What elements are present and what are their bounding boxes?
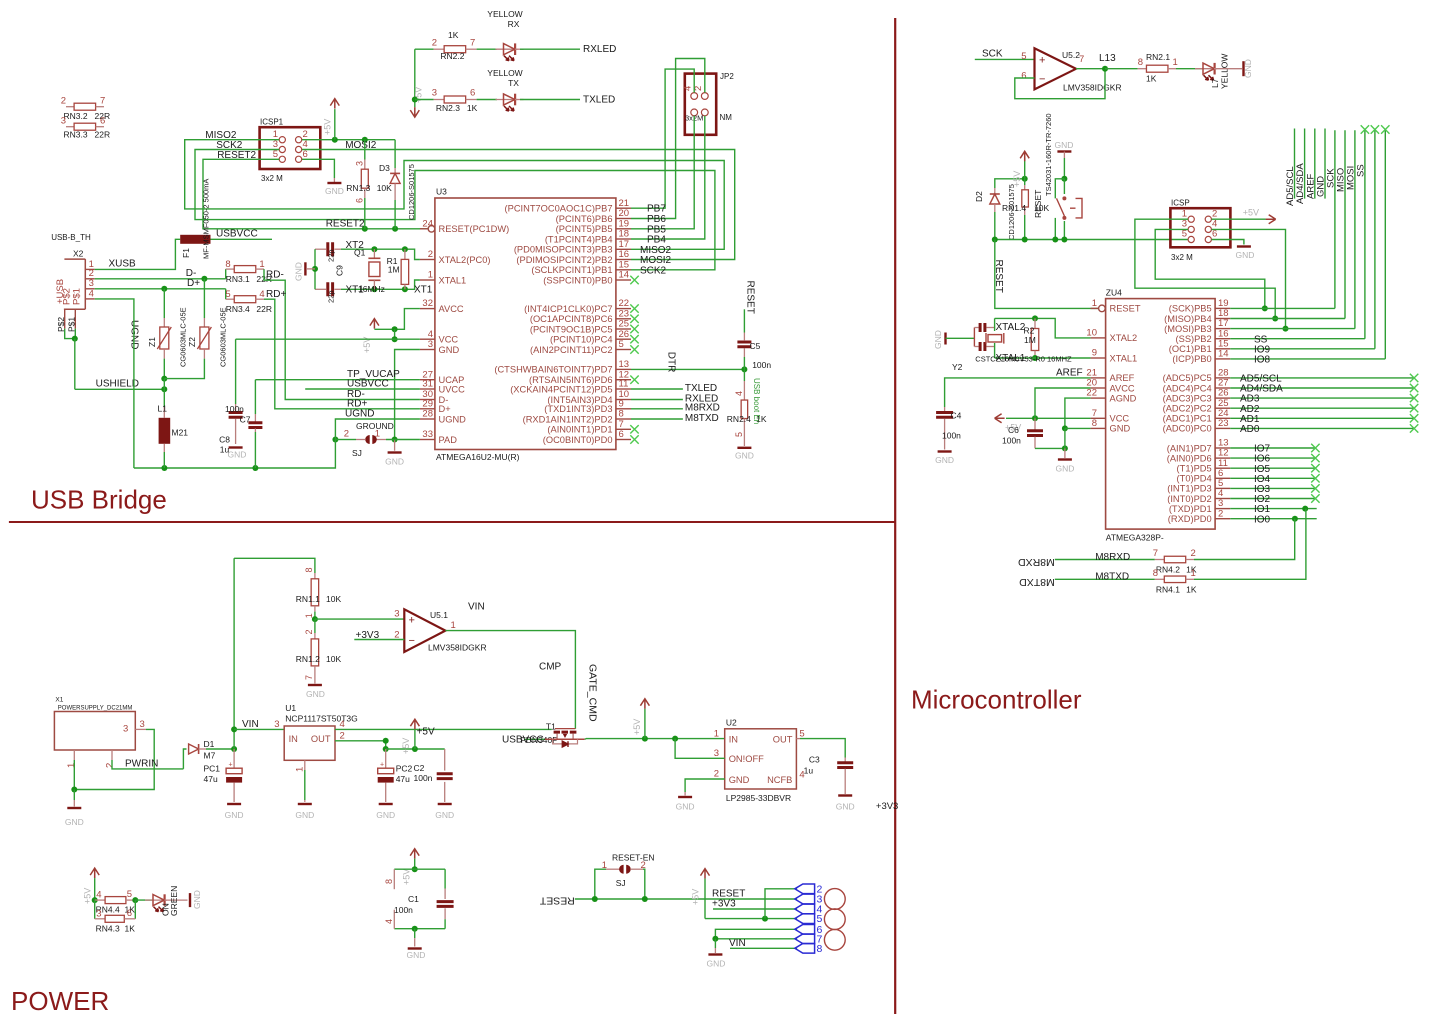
svg-text:2: 2 — [428, 249, 433, 260]
svg-text:POWERSUPPLY_DC21MM: POWERSUPPLY_DC21MM — [58, 706, 133, 712]
wire PB1 row IO9 — [1230, 348, 1375, 350]
IC ZU4 ATMEGA328P body — [1106, 299, 1216, 529]
wire MOSI2 from ICSP1 pin4 to U3 PB2 — [302, 149, 340, 151]
svg-text:U5.1: U5.1 — [430, 610, 448, 620]
wire TXLED — [520, 99, 580, 101]
junction DTR/C5 — [741, 366, 747, 372]
svg-text:ICSP1: ICSP1 — [260, 118, 284, 127]
junction D-/Z2 — [201, 276, 207, 282]
svg-text:(TXD1INT3)PD3: (TXD1INT3)PD3 — [544, 404, 612, 414]
svg-text:XTAL2: XTAL2 — [1110, 333, 1138, 343]
junction RN4.4 right — [132, 897, 138, 903]
svg-text:22p: 22p — [327, 249, 336, 262]
svg-text:(MOSI)PB3: (MOSI)PB3 — [1164, 324, 1212, 334]
svg-text:GND: GND — [385, 457, 404, 467]
svg-text:ON!OFF: ON!OFF — [729, 754, 764, 764]
wire RESET down to ZU4 — [995, 240, 1099, 309]
svg-text:GND: GND — [325, 186, 344, 196]
svg-text:F1: F1 — [181, 248, 191, 258]
svg-text:USB-B_TH: USB-B_TH — [51, 233, 91, 242]
wire IO5 row — [1230, 467, 1315, 469]
wire ON!OFF — [675, 739, 725, 759]
ground GND (resonator) — [944, 333, 946, 345]
wire XT2 gnd branch — [314, 249, 316, 289]
ZU4 pin 28 (ADC5)PC5 — [1215, 377, 1230, 379]
svg-text:GND: GND — [735, 451, 754, 461]
svg-text:AGND: AGND — [1110, 393, 1137, 403]
svg-text:C6: C6 — [1008, 425, 1019, 435]
svg-text:D1: D1 — [204, 739, 215, 749]
svg-text:GND: GND — [225, 810, 244, 820]
ground GND (C4) — [938, 450, 952, 452]
svg-text:C9: C9 — [335, 265, 345, 276]
U3 pin 31 UVCC — [420, 388, 435, 390]
svg-text:2: 2 — [105, 763, 116, 768]
junction +5V stem — [412, 746, 418, 752]
resistor RN4.1 1K — [1155, 578, 1165, 580]
svg-text:SJ: SJ — [616, 878, 626, 888]
svg-text:VIN: VIN — [729, 938, 746, 949]
wire UGND down to ground rail — [255, 419, 420, 468]
svg-text:D3: D3 — [379, 163, 390, 173]
no-connect X — [630, 425, 638, 433]
svg-text:TXLED: TXLED — [685, 383, 717, 394]
svg-text:USB Bridge: USB Bridge — [31, 485, 167, 515]
resistor RN2.4 1K — [743, 369, 745, 381]
svg-text:(PCINT10)PC4: (PCINT10)PC4 — [550, 335, 613, 345]
svg-text:(ICP)PB0: (ICP)PB0 — [1172, 354, 1211, 364]
svg-text:RESET-EN: RESET-EN — [612, 853, 655, 863]
svg-text:(XCKAIN4PCINT12)PD5: (XCKAIN4PCINT12)PD5 — [510, 384, 612, 394]
junction +5V (USB power mux) — [642, 736, 648, 742]
svg-text:+5V: +5V — [632, 719, 642, 735]
ZU4 pin 19 (SCK)PB5 — [1215, 307, 1230, 309]
ZU4 pin 25 (ADC2)PC2 — [1215, 407, 1230, 409]
wire RD- to U3 D- — [264, 269, 420, 399]
ZU4 pin 8 GND — [1091, 427, 1106, 429]
svg-text:RN3.2: RN3.2 — [64, 111, 88, 121]
ground GND (C8) — [229, 446, 243, 448]
wire AREF to C4 — [945, 378, 1091, 407]
junction +5V symbol — [332, 137, 338, 143]
svg-text:10K: 10K — [326, 594, 341, 604]
no-connect X — [630, 435, 638, 443]
svg-text:+5V: +5V — [402, 869, 412, 885]
svg-text:1M: 1M — [1024, 335, 1036, 345]
wire GND to header pin7 — [715, 938, 797, 940]
capacitor 22p (XTAL1 side) — [315, 288, 326, 290]
ground GND (U2) — [684, 792, 686, 796]
svg-text:USBVCC: USBVCC — [216, 228, 258, 239]
svg-text:14: 14 — [619, 270, 630, 281]
svg-text:−: − — [1039, 74, 1045, 86]
svg-text:100n: 100n — [225, 404, 244, 414]
svg-text:L13: L13 — [1099, 53, 1116, 64]
junction header +5V — [762, 916, 768, 922]
svg-text:4: 4 — [259, 289, 264, 300]
svg-text:2: 2 — [641, 860, 646, 871]
svg-text:1: 1 — [259, 259, 264, 270]
svg-text:RN2.2: RN2.2 — [440, 51, 464, 61]
junction IO0/M8RXD — [1292, 516, 1298, 522]
ZU4 pin 14 (ICP)PB0 — [1215, 358, 1230, 360]
resistor R2 1M — [1032, 315, 1038, 321]
svg-text:+: + — [409, 615, 415, 627]
svg-text:+5V: +5V — [417, 727, 435, 738]
diode D3 CD1206-S01575 — [394, 140, 396, 168]
wire +5V row from ICSP1 pin2 — [302, 139, 395, 141]
svg-text:+5V: +5V — [1012, 171, 1022, 187]
svg-text:IO0: IO0 — [1254, 514, 1271, 525]
svg-text:C1: C1 — [408, 894, 419, 904]
svg-text:14: 14 — [1218, 349, 1229, 360]
net stub GND — [1324, 129, 1326, 199]
junction C1 top — [412, 866, 418, 872]
capacitor PC2 47u polarized — [385, 749, 387, 768]
section divider horizontal — [9, 521, 895, 523]
svg-text:RN2.3: RN2.3 — [436, 103, 460, 113]
svg-text:(ADC4)PC4: (ADC4)PC4 — [1163, 383, 1212, 393]
junction RESET/button a — [1052, 237, 1058, 243]
ZU4 pin 15 (OC1)PB1 — [1215, 348, 1230, 350]
svg-text:UGND: UGND — [439, 414, 467, 424]
svg-text:M8TXD: M8TXD — [1019, 576, 1055, 588]
resistor RN1.3 10K — [364, 140, 366, 160]
wire AVCC down — [1035, 388, 1091, 418]
svg-text:5: 5 — [734, 432, 744, 437]
svg-text:2: 2 — [304, 629, 314, 634]
svg-text:+5V: +5V — [401, 738, 411, 754]
svg-text:(TXD)PD1: (TXD)PD1 — [1169, 504, 1212, 514]
junction ON!OFF tie — [672, 736, 678, 742]
svg-text:LMV358IDGKR: LMV358IDGKR — [428, 643, 487, 653]
svg-text:3: 3 — [140, 719, 145, 730]
svg-text:RN1.2: RN1.2 — [296, 654, 320, 664]
wire GND pin3 down — [395, 350, 420, 440]
svg-text:8: 8 — [817, 943, 823, 955]
wire SS bus — [1364, 130, 1366, 339]
svg-text:M8TXD: M8TXD — [1095, 572, 1129, 583]
svg-text:OUT: OUT — [311, 734, 331, 744]
varistor Z2 CG0603MLC-05E — [203, 279, 205, 318]
wire ICSP MISO to PB4 — [1135, 219, 1275, 318]
wire RD+ to U3 D+ — [264, 299, 420, 409]
ground GND (U1) — [304, 760, 306, 770]
ZU4 pin 1 RESET — [1091, 307, 1099, 309]
ZU4 pin 12 (AIN0)PD6 — [1215, 457, 1230, 459]
svg-text:1: 1 — [602, 860, 607, 871]
svg-text:1: 1 — [295, 767, 306, 772]
svg-text:UVCC: UVCC — [439, 384, 466, 394]
inductor L1 M21 ferrite — [163, 407, 165, 418]
svg-text:Microcontroller: Microcontroller — [911, 685, 1082, 715]
svg-text:2: 2 — [61, 96, 66, 107]
wire VIN to header pin8 — [730, 947, 797, 949]
svg-text:RN1.3: RN1.3 — [346, 183, 370, 193]
svg-text:6: 6 — [355, 198, 365, 203]
svg-text:+3V3: +3V3 — [876, 801, 898, 812]
wire AD3 row — [1230, 397, 1414, 399]
U3 pin 18 (T1PCINT4)PB4 — [616, 238, 631, 240]
wire +3V3 to op-amp - — [354, 639, 404, 641]
svg-text:9: 9 — [1092, 348, 1097, 359]
svg-text:IN: IN — [289, 734, 298, 744]
junction Z1 bottom — [161, 376, 167, 382]
svg-text:8: 8 — [384, 879, 394, 884]
no-connect X — [630, 304, 638, 312]
wire AD4/SDA row — [1230, 387, 1414, 389]
svg-text:RX: RX — [508, 19, 520, 29]
svg-text:3: 3 — [714, 748, 719, 759]
wire USHIELD rail — [75, 388, 165, 390]
svg-text:USHIELD: USHIELD — [96, 379, 139, 390]
svg-text:(PCINT6)PB6: (PCINT6)PB6 — [556, 214, 613, 224]
wire VCC rail — [236, 338, 420, 340]
svg-text:PC2: PC2 — [396, 764, 413, 774]
connector ICSP1 3x2 header — [260, 127, 321, 169]
svg-text:GND: GND — [676, 802, 695, 812]
ground GND (PC1) — [227, 803, 241, 805]
svg-text:1: 1 — [304, 613, 314, 618]
svg-text:U5.2: U5.2 — [1062, 50, 1080, 60]
wire RXLED stub — [631, 399, 683, 401]
svg-text:4: 4 — [89, 288, 94, 299]
svg-text:YELLOW: YELLOW — [487, 9, 522, 19]
junction XT2 gnd — [312, 266, 318, 272]
svg-text:AVCC: AVCC — [1110, 383, 1135, 393]
svg-text:8: 8 — [1092, 418, 1097, 429]
X2 shield pins P$2 P$1 — [64, 309, 66, 328]
svg-text:3: 3 — [355, 161, 365, 166]
no-connect X — [630, 345, 638, 353]
junction divider mid — [312, 616, 318, 622]
ZU4 pin 17 (MOSI)PB3 — [1215, 328, 1230, 330]
svg-text:3x2 M: 3x2 M — [1171, 253, 1193, 262]
connector JP2 2x2 header — [685, 74, 716, 135]
capacitor C4 100n — [944, 407, 946, 411]
wire MOSI bus — [1354, 130, 1356, 328]
svg-text:GND: GND — [65, 817, 84, 827]
ground GND (RN1.2) — [314, 672, 316, 684]
wire IO4 row — [1230, 477, 1315, 479]
svg-text:SS: SS — [1355, 164, 1366, 177]
svg-text:SCK2: SCK2 — [640, 265, 667, 276]
ground GND (ZU4) — [1064, 448, 1066, 458]
ZU4 pin 22 AGND — [1091, 397, 1106, 399]
net stub AREF — [1314, 129, 1316, 199]
wire IO1 row — [1230, 508, 1317, 510]
junction ground rail C7 — [252, 465, 258, 471]
svg-text:1: 1 — [1092, 298, 1097, 309]
ZU4 pin 11 (T1)PD5 — [1215, 467, 1230, 469]
U3 pin 1 XTAL1 — [420, 279, 435, 281]
wire +5V cap rail — [386, 748, 445, 750]
U3 pin 26 (PCINT10)PC4 — [616, 338, 631, 340]
wire GND to header pin6 — [715, 929, 797, 939]
svg-text:AD0: AD0 — [1240, 424, 1260, 435]
wire M8TXD to IO1 — [1194, 509, 1306, 580]
wire PB4 row — [1230, 318, 1345, 320]
power +5V symbol (ZU4, pointing left) — [995, 414, 1005, 423]
wire PB3 row — [1230, 328, 1355, 330]
U3 pin 9 (TXD1INT3)PD3 — [616, 408, 631, 410]
svg-text:10K: 10K — [377, 183, 392, 193]
svg-text:XTAL1: XTAL1 — [1110, 353, 1138, 363]
wire D+ rail — [95, 288, 226, 290]
wire TXLED stub — [631, 388, 683, 390]
svg-text:1u: 1u — [804, 766, 814, 776]
svg-text:T1: T1 — [546, 722, 556, 732]
svg-text:XTAL2: XTAL2 — [996, 322, 1026, 333]
svg-text:LP2985-33DBVR: LP2985-33DBVR — [726, 793, 791, 803]
svg-text:RESET(PC1DW): RESET(PC1DW) — [439, 224, 510, 234]
junction C1 bottom — [412, 926, 418, 932]
svg-text:(INT0)PD2: (INT0)PD2 — [1167, 494, 1211, 504]
wire CMP / GATE_CMD — [445, 631, 575, 729]
resistor RN1.4 10K — [1024, 179, 1026, 185]
svg-text:8: 8 — [225, 259, 230, 270]
svg-text:(INT4ICP1CLK0)PC7: (INT4ICP1CLK0)PC7 — [524, 304, 612, 314]
wire divider to op-amp + — [315, 618, 404, 620]
svg-text:1K: 1K — [1146, 74, 1157, 84]
junction RESET2/RN1.3 — [362, 226, 368, 232]
ground GND (C1) — [414, 929, 416, 939]
svg-text:C4: C4 — [951, 411, 962, 421]
U3 pin 21 (PCINT7OC0AOC1C)PB7 — [616, 207, 631, 209]
svg-text:6: 6 — [127, 908, 132, 919]
svg-text:1: 1 — [451, 620, 456, 631]
svg-text:7: 7 — [100, 96, 105, 107]
svg-text:(SS)PB2: (SS)PB2 — [1176, 334, 1212, 344]
wire U1 OUT (+5V rail) — [335, 728, 552, 730]
svg-text:UGND: UGND — [345, 409, 374, 420]
U3 pin 24 RESET(PC1DW) — [420, 228, 428, 230]
svg-text:6: 6 — [1021, 71, 1026, 82]
wire D- rail — [95, 278, 226, 280]
ZU4 pin 21 AREF — [1091, 377, 1106, 379]
wire SCK2 wrap — [195, 150, 715, 270]
svg-text:22: 22 — [1086, 388, 1097, 399]
svg-text:100n: 100n — [1002, 436, 1021, 446]
U3 pin 4 VCC — [420, 338, 435, 340]
svg-text:2: 2 — [432, 37, 437, 48]
wire PB2 row SS — [1230, 338, 1365, 340]
junction VCC/C6 — [1032, 415, 1038, 421]
capacitor 22p (XTAL2 side) — [315, 248, 326, 250]
junction VIN rail — [231, 726, 237, 732]
junction RESET-EN 2 — [642, 896, 648, 902]
svg-text:IN: IN — [729, 734, 738, 744]
svg-text:3x2 M: 3x2 M — [261, 174, 283, 183]
junction U5.2 output — [1102, 66, 1108, 72]
wire TP_VUCAP rail (C7) — [254, 432, 256, 468]
wire PWRIN — [111, 750, 113, 760]
svg-text:RN3.1: RN3.1 — [226, 274, 250, 284]
junction button/GND — [1061, 176, 1067, 182]
svg-text:RN4.2: RN4.2 — [1156, 565, 1180, 575]
junction MOSI/PB3 — [1283, 326, 1289, 332]
wire shield to USHIELD — [65, 329, 75, 339]
wire XTAL1 rail — [341, 280, 420, 289]
U3 pin 25 (PCINT9OC1B)PC5 — [616, 328, 631, 330]
wire PB0 row IO8 — [1230, 358, 1385, 360]
svg-text:P$1: P$1 — [72, 288, 83, 305]
svg-text:5: 5 — [799, 728, 804, 739]
power +5V symbol (LED supply, pointing down) — [414, 49, 416, 99]
svg-text:1K: 1K — [467, 103, 478, 113]
svg-text:USBVCC: USBVCC — [347, 379, 389, 390]
svg-text:GND: GND — [935, 455, 954, 465]
junction +5V/AVCC — [392, 326, 398, 332]
svg-text:(ADC2)PC2: (ADC2)PC2 — [1163, 404, 1212, 414]
svg-text:1: 1 — [428, 270, 433, 281]
svg-text:(RXD)PD0: (RXD)PD0 — [1168, 514, 1212, 524]
junction SJ/UGND — [332, 437, 338, 443]
wire U3 PB7 to JP2 pin4 — [631, 69, 694, 208]
svg-text:RN3.3: RN3.3 — [64, 129, 88, 139]
junction USHIELD/Z1 — [161, 386, 167, 392]
wire MISO2 wrap — [185, 140, 725, 250]
ZU4 pin 10 XTAL2 — [1091, 337, 1106, 339]
svg-text:3: 3 — [96, 908, 101, 919]
svg-text:(RXD1AIN1INT2)PD2: (RXD1AIN1INT2)PD2 — [523, 414, 613, 424]
junction PAD/GND — [392, 437, 398, 443]
junction RESET/D2 — [992, 237, 998, 243]
section divider vertical — [894, 18, 896, 1014]
svg-text:ICSP: ICSP — [1171, 199, 1190, 208]
wire PB5 row — [1230, 307, 1335, 309]
svg-text:(INT1)PD3: (INT1)PD3 — [1167, 484, 1211, 494]
svg-text:+: + — [1039, 55, 1045, 67]
svg-text:RN2.1: RN2.1 — [1146, 52, 1170, 62]
svg-text:4: 4 — [96, 890, 101, 901]
svg-text:(OC0BINT0)PD0: (OC0BINT0)PD0 — [543, 435, 613, 445]
svg-text:(AIN1)PD7: (AIN1)PD7 — [1167, 443, 1212, 453]
svg-text:(T1)PD5: (T1)PD5 — [1177, 464, 1212, 474]
svg-text:4: 4 — [384, 919, 394, 924]
ZU4 pin 18 (MISO)PB4 — [1215, 318, 1230, 320]
svg-text:M7: M7 — [204, 751, 216, 761]
svg-text:USB boot En: USB boot En — [752, 378, 761, 424]
wire AGND down — [1065, 398, 1091, 428]
svg-text:L1: L1 — [158, 404, 168, 414]
U3 pin 32 AVCC — [420, 308, 435, 310]
svg-text:PC1: PC1 — [204, 764, 221, 774]
svg-text:AREF: AREF — [1056, 367, 1083, 378]
svg-text:RESET2: RESET2 — [326, 219, 365, 230]
wire IO8 bus — [1384, 130, 1386, 359]
ground GND (RN2.4) — [743, 429, 745, 446]
connector power header pins 2-8 — [795, 884, 815, 894]
svg-text:VCC: VCC — [1110, 414, 1130, 424]
svg-text:L7: L7 — [1210, 78, 1220, 88]
svg-text:GND: GND — [435, 810, 454, 820]
svg-text:RN2.4: RN2.4 — [727, 414, 751, 424]
wire +5V to header pin5 — [705, 918, 797, 920]
junction IO1/M8TXD — [1302, 506, 1308, 512]
diode D2 CD1206-S01575 — [995, 179, 1025, 188]
svg-text:2: 2 — [344, 429, 349, 440]
wire RESET rail — [995, 239, 1188, 241]
wire XTAL2 rail — [995, 318, 1091, 338]
wire IO2 row — [1230, 498, 1315, 500]
wire RESET rail to header — [575, 898, 797, 900]
svg-text:(OC1)PB1: (OC1)PB1 — [1169, 344, 1212, 354]
svg-text:NCFB: NCFB — [767, 775, 792, 785]
junction TXLED/+5V — [412, 97, 418, 103]
svg-text:OUT: OUT — [773, 734, 793, 744]
svg-text:RESET: RESET — [1110, 304, 1141, 314]
